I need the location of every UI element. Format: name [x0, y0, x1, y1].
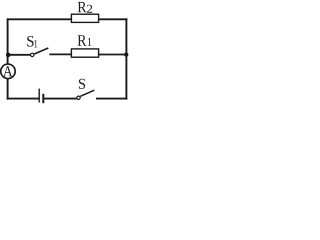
wire right side — [125, 18, 127, 99]
wire middle branch right segment (R1 to right side) — [99, 54, 126, 56]
label R1 — [78, 35, 92, 46]
node junction dot left — [6, 53, 11, 58]
battery short plate — [42, 94, 44, 103]
wire middle branch left segment — [8, 54, 31, 56]
label S — [79, 79, 85, 89]
battery long plate — [39, 89, 40, 103]
wire bottom left segment — [7, 98, 39, 100]
wire top side — [7, 18, 128, 20]
switch S terminal circle — [77, 96, 80, 99]
switch S1 terminal circle — [31, 53, 34, 56]
resistor R2 — [71, 14, 98, 22]
resistor R1 — [71, 49, 98, 57]
ammeter A — [1, 64, 16, 79]
wire left side — [7, 18, 9, 99]
node junction dot right — [124, 52, 128, 56]
label S1 — [27, 36, 37, 48]
label R2 — [78, 2, 93, 13]
wire bottom middle segment (battery to switch S) — [44, 98, 76, 100]
switch S1 blade — [34, 48, 48, 54]
wire bottom right segment — [96, 98, 127, 100]
switch S blade — [80, 90, 94, 96]
wire middle branch center segment (S1 to R1) — [49, 53, 71, 55]
